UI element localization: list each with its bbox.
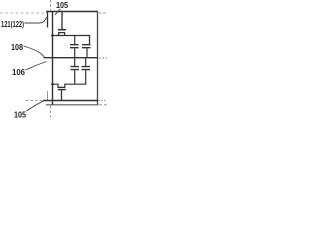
leader for 106 (26, 62, 47, 71)
leader for 108 (24, 46, 45, 58)
capacitor C4 plates (82, 67, 91, 70)
dashed continuation of line 108 right (99, 57, 107, 59)
leader for top 105 (55, 9, 61, 15)
dashed continuation of bottom line 2 right (99, 104, 108, 106)
junction dot data line / top bus (51, 34, 54, 37)
dashed continuation of bottom scan line left (26, 100, 43, 102)
capacitor C3 plates (71, 67, 80, 70)
signal line 121(122) vertical stub top-left (47, 12, 49, 28)
capacitor C4 bottom wire (85, 70, 87, 84)
capacitor C1 bottom wire (74, 48, 76, 58)
capacitor C3 top wire (74, 58, 76, 66)
capacitor C2 bottom wire (86, 48, 88, 58)
right vertical line (97, 12, 99, 106)
dashed boundary line left (net boundary) (0, 12, 46, 14)
svg-text:105: 105 (14, 110, 26, 120)
dashed vertical line top (data line continuation) (50, 0, 52, 11)
transistor T1 gate wire (61, 12, 63, 29)
svg-text:106: 106 (12, 67, 25, 77)
transistor T2 gate wire (61, 90, 63, 100)
junction dot data line / bottom bus (51, 83, 54, 86)
leader for 121(122) (25, 17, 47, 23)
dashed vertical line bottom (data line continuation) (50, 106, 52, 120)
bottom scan line 105 (43, 100, 98, 102)
capacitor C1 plates (70, 45, 79, 48)
transistor T2 gate bar (58, 89, 66, 91)
dashed boundary line right top (99, 12, 107, 14)
svg-text:108: 108 (11, 42, 23, 52)
data line (vertical at x=52.5) (52, 12, 54, 105)
capacitor C2 plates (82, 45, 91, 48)
common line 108 (middle horizontal) (44, 57, 99, 59)
scan line 105 (top horizontal) (46, 11, 98, 13)
capacitor C1 top wire (74, 36, 76, 44)
dashed continuation of bottom scan line right (99, 100, 108, 102)
bottom bus wire with T2 channel dip (53, 84, 87, 87)
svg-text:121(122): 121(122) (1, 19, 24, 29)
transistor T1 channel (57, 33, 65, 36)
capacitor C4 top wire (85, 58, 87, 66)
bottom second line (46, 104, 98, 106)
leader for bottom 105 (27, 101, 44, 111)
top bus wire (T1 source-drain line) (53, 36, 90, 45)
transistor T1 gate bar (58, 29, 66, 31)
capacitor C3 bottom wire (74, 70, 76, 84)
signal line stub bottom-left (faint) (47, 91, 49, 100)
svg-text:105: 105 (56, 0, 68, 10)
